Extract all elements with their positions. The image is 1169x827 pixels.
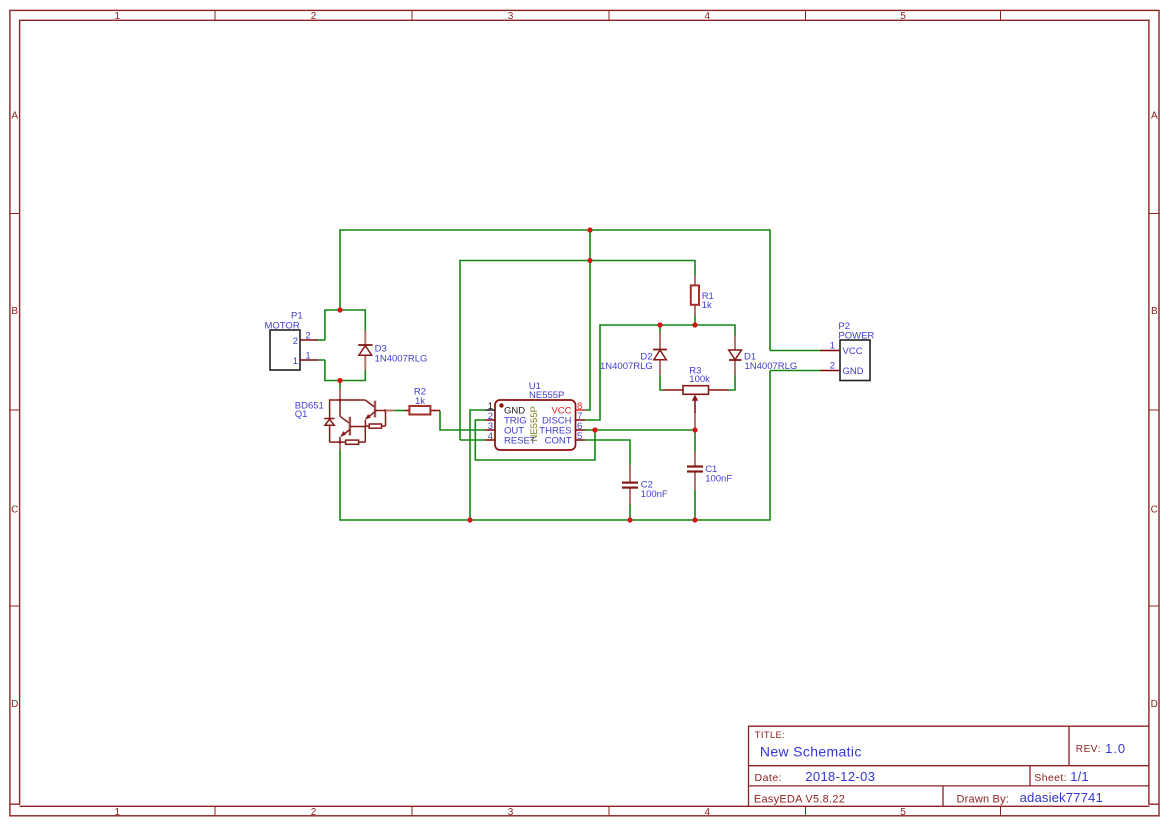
svg-text:D: D (1151, 699, 1158, 710)
junction dots (337, 227, 697, 522)
wire: C2 bottom to GND rail (629, 505, 631, 520)
svg-text:1N4007RLG: 1N4007RLG (375, 353, 428, 364)
node TRIG-THRES (592, 427, 597, 432)
node motor top (337, 307, 342, 312)
wire: CONT pin5 to C2 (585, 440, 630, 465)
svg-text:1k: 1k (415, 396, 425, 407)
svg-text:NE555P: NE555P (529, 406, 540, 441)
svg-text:New Schematic: New Schematic (760, 744, 862, 760)
connector P1 MOTOR (265, 311, 326, 371)
svg-text:3: 3 (508, 11, 514, 22)
wire: VCC pin8 drop (585, 230, 590, 410)
svg-text:Date:: Date: (755, 772, 783, 784)
svg-text:1: 1 (293, 356, 298, 367)
svg-text:Q1: Q1 (295, 409, 308, 420)
svg-text:TITLE:: TITLE: (755, 730, 785, 740)
svg-text:100nF: 100nF (641, 489, 668, 500)
svg-text:A: A (11, 110, 18, 121)
node THRES-wiper (692, 427, 697, 432)
wire: P2 GND (770, 370, 820, 372)
diode D1 (729, 336, 798, 376)
node GND rail C1 (692, 517, 697, 522)
svg-text:CONT: CONT (545, 435, 572, 446)
wire: motor loop bottom (325, 360, 365, 381)
diode D2 (600, 333, 667, 376)
wire: GND pin1 down (470, 410, 486, 520)
wire: TRIG pin2 to THRES node (475, 420, 595, 460)
wire: motor node to Q1 collector (339, 381, 341, 390)
node R1 bottom (692, 322, 697, 327)
svg-text:2: 2 (830, 361, 835, 372)
wire: DISCH pin7 to diode rail (585, 325, 735, 420)
wire: D1 branch bottom (729, 375, 736, 390)
svg-text:REV:: REV: (1076, 744, 1101, 755)
node second rail / pin8 (587, 258, 592, 263)
svg-text:1/1: 1/1 (1070, 769, 1089, 784)
node top rail / pin8 (587, 227, 592, 232)
capacitor C1 (687, 452, 732, 490)
wire: Q1 emitter to R2 (395, 410, 406, 412)
wire: node to C1 (694, 430, 696, 452)
svg-text:100k: 100k (689, 374, 710, 385)
svg-text:1N4007RLG: 1N4007RLG (745, 361, 798, 372)
svg-text:5: 5 (900, 807, 906, 818)
wire: R2 to OUT pin3 (440, 411, 486, 431)
capacitor C2 (622, 465, 668, 505)
svg-text:100nF: 100nF (705, 474, 732, 485)
node D2 top (657, 322, 662, 327)
svg-text:5: 5 (900, 11, 906, 22)
TITLE BLOCK (749, 726, 1149, 806)
svg-text:MOTOR: MOTOR (265, 320, 300, 331)
svg-text:3: 3 (508, 807, 514, 818)
svg-text:adasiek77741: adasiek77741 (1020, 790, 1103, 805)
wire: motor loop top (325, 310, 365, 340)
svg-text:2: 2 (293, 336, 298, 347)
CIRCUIT (265, 227, 875, 522)
op-amp/timer U1 NE555P (486, 381, 586, 450)
wire: RESET pin4 stub (460, 439, 486, 441)
svg-text:D: D (11, 699, 18, 710)
svg-text:1: 1 (115, 11, 121, 22)
node motor bottom (337, 378, 342, 383)
node GND rail pin1 (467, 517, 472, 522)
svg-text:B: B (11, 306, 18, 317)
svg-text:1: 1 (115, 807, 121, 818)
svg-text:C: C (1151, 505, 1158, 516)
svg-text:4: 4 (705, 11, 711, 22)
resistor R3 (preset) (663, 365, 729, 413)
svg-text:POWER: POWER (838, 330, 874, 341)
svg-text:EasyEDA V5.8.22: EasyEDA V5.8.22 (754, 793, 845, 805)
wire: R3 wiper to THRES (694, 413, 696, 430)
svg-text:VCC: VCC (843, 346, 863, 357)
diode D3 (358, 331, 427, 371)
resistor R2 (405, 387, 440, 415)
svg-text:1N4007RLG: 1N4007RLG (600, 361, 653, 372)
transistor Q1 BD651 (295, 389, 395, 450)
node GND rail C2 (627, 517, 632, 522)
wire: THRES pin6 to wiper node (585, 429, 695, 431)
svg-text:2: 2 (311, 807, 317, 818)
wire: R1 bottom to rail (694, 316, 696, 326)
svg-text:Drawn By:: Drawn By: (957, 793, 1010, 805)
svg-text:A: A (1151, 110, 1158, 121)
svg-text:1k: 1k (702, 300, 712, 311)
svg-text:4: 4 (705, 807, 711, 818)
svg-text:1.0: 1.0 (1105, 741, 1126, 756)
svg-text:2: 2 (311, 11, 317, 22)
svg-text:2: 2 (305, 331, 310, 342)
wire: D2 branch (660, 325, 663, 390)
resistor R1 (691, 276, 714, 316)
svg-text:2018-12-03: 2018-12-03 (805, 769, 875, 784)
wire: P2 VCC (770, 350, 820, 352)
wire: C1 bottom to rail (694, 490, 696, 520)
svg-text:NE555P: NE555P (529, 390, 564, 401)
svg-text:C: C (11, 505, 18, 516)
svg-text:GND: GND (843, 366, 864, 377)
wire: second rail (RESET to R1 top) (460, 261, 695, 441)
wire: top VCC rail (340, 230, 770, 351)
connector P2 POWER (820, 321, 874, 380)
svg-text:5: 5 (577, 431, 582, 442)
svg-text:1: 1 (830, 341, 835, 352)
svg-text:4: 4 (488, 431, 493, 442)
svg-text:1: 1 (305, 351, 310, 362)
svg-text:Sheet:: Sheet: (1034, 772, 1067, 784)
svg-text:B: B (1151, 306, 1158, 317)
wire: bottom GND rail (340, 371, 770, 521)
